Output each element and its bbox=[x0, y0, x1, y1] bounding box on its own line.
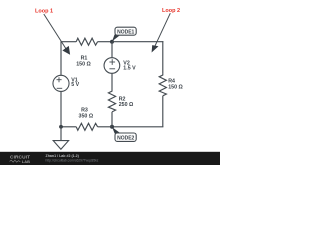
voltage source V1 bbox=[53, 75, 69, 91]
svg-text:350 Ω: 350 Ω bbox=[79, 114, 94, 120]
node NODE1 bbox=[115, 27, 136, 35]
wire top-right segment bbox=[112, 41, 163, 43]
resistor R4 bbox=[159, 73, 166, 95]
junction NODE1 dot bbox=[110, 40, 114, 44]
wire right branch lower bbox=[162, 96, 164, 127]
node NODE2 callout tail bbox=[112, 127, 120, 133]
wire bottom-middle segment bbox=[98, 126, 112, 128]
svg-text:250 Ω: 250 Ω bbox=[119, 102, 134, 108]
svg-text:Loop 2: Loop 2 bbox=[162, 8, 180, 14]
svg-text:1.5 V: 1.5 V bbox=[123, 66, 136, 72]
annotation Loop 1 arrow line bbox=[44, 14, 66, 49]
svg-text:5 V: 5 V bbox=[71, 82, 79, 88]
svg-text:150 Ω: 150 Ω bbox=[168, 84, 183, 90]
wire middle branch lower bbox=[111, 112, 113, 127]
footer logo wave bbox=[10, 160, 21, 162]
wire right branch upper bbox=[162, 41, 164, 73]
node NODE2 bbox=[115, 133, 136, 142]
footer bar bbox=[0, 152, 220, 165]
svg-text:NODE1: NODE1 bbox=[117, 30, 134, 36]
svg-text:R3: R3 bbox=[81, 107, 88, 113]
annotation Loop 2 arrow line bbox=[155, 13, 170, 46]
svg-text:150 Ω: 150 Ω bbox=[76, 61, 91, 67]
wire middle branch upper bbox=[111, 42, 113, 58]
annotation Loop 2 arrowhead bbox=[152, 45, 159, 52]
junction ground node dot bbox=[59, 125, 63, 129]
voltage source V2 bbox=[104, 58, 120, 74]
wire left branch upper bbox=[60, 41, 62, 75]
junction NODE2 dot bbox=[110, 125, 114, 129]
wire top-middle segment bbox=[98, 41, 112, 43]
svg-text:Loop 1: Loop 1 bbox=[35, 8, 53, 14]
wire middle branch mid bbox=[111, 73, 113, 89]
svg-text:http://circuitlab.com/c6297Twq: http://circuitlab.com/c6297Twqc85kz bbox=[46, 158, 99, 162]
wire bottom-right segment bbox=[112, 126, 163, 128]
resistor R1 bbox=[76, 38, 97, 45]
ground stem bbox=[60, 127, 62, 141]
wire left branch lower bbox=[60, 91, 62, 126]
wire bottom-left segment bbox=[61, 126, 76, 128]
ground bbox=[53, 141, 68, 150]
svg-text:LAB: LAB bbox=[22, 159, 30, 164]
resistor R3 bbox=[76, 123, 97, 130]
svg-text:NODE2: NODE2 bbox=[117, 136, 134, 142]
wire top-left segment bbox=[61, 41, 76, 43]
resistor R2 bbox=[108, 90, 115, 112]
annotation Loop 1 arrowhead bbox=[62, 46, 70, 55]
node NODE1 callout tail bbox=[112, 34, 120, 41]
